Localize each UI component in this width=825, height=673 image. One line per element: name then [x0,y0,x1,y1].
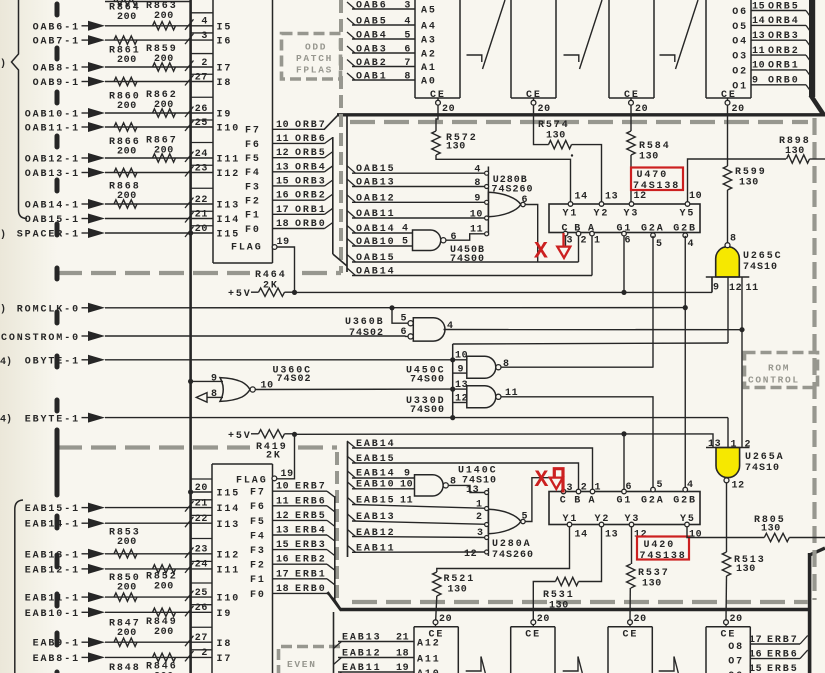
svg-text:13: 13 [605,192,618,203]
svg-text:G1: G1 [617,224,633,235]
svg-text:): ) [0,229,6,241]
decoder U470 74S138 body [549,204,700,233]
svg-text:A2: A2 [421,50,437,61]
svg-text:F3: F3 [245,182,261,193]
bundle tick EAB8-1 [185,651,194,662]
svg-text:B: B [574,224,582,235]
svg-text:74S260: 74S260 [492,550,534,561]
bevel corner top right [811,95,824,115]
nor gate U280A 74S260 [487,488,489,556]
bundle trunk vertical line upper [346,115,348,272]
svg-text:ORB7: ORB7 [295,120,327,131]
svg-text:O2: O2 [732,66,748,77]
svg-text:15: 15 [276,540,289,551]
signal OAB12 bundle [347,195,356,203]
wire jog to U360B pin6 [406,335,408,337]
svg-text:130: 130 [736,564,756,575]
wire U450C out to U470 G2A [502,366,654,368]
svg-text:8: 8 [404,72,411,83]
svg-text:A11: A11 [417,655,441,666]
heavy divider line top [337,113,825,116]
svg-text:3: 3 [567,236,574,247]
svg-text:200: 200 [117,582,137,593]
U420 pin Y5 [685,522,690,527]
svg-text:20: 20 [537,614,550,625]
resistor R537 130 [627,564,635,588]
svg-text:ODD: ODD [305,42,327,53]
svg-text:ERB4: ERB4 [295,526,327,537]
svg-text:200: 200 [117,55,137,66]
bundle tick OAB9-1 [185,75,194,86]
svg-text:C: C [560,496,568,507]
svg-text:I13: I13 [217,201,241,212]
bundle trunk vertical line lower [347,442,349,558]
bundle tick EAB13-1 [185,547,194,558]
junction G1 U470 on +5V net [621,290,626,295]
svg-text:O7: O7 [728,657,744,668]
U420 pin Y1 [567,522,572,527]
signal OAB1 to pin 8 A0 [347,73,355,80]
svg-text:I10: I10 [217,594,241,605]
junction U420 G1 on R419 net [621,431,626,436]
svg-text:6: 6 [625,236,632,247]
wire Y5 to R898 [688,159,787,204]
svg-text:ERB1: ERB1 [295,569,327,580]
wire OAB15 to U470 B [352,261,579,263]
svg-text:ROM: ROM [768,363,790,374]
pin 22 I13 even chip [191,522,212,524]
svg-text:C: C [562,224,570,235]
rom control dashed box [745,353,818,388]
pin 20 I15 even chip [191,491,212,493]
svg-text:R537: R537 [638,568,670,579]
svg-text:13: 13 [276,162,289,173]
signal EAB15 bundle to U420 B [347,456,356,463]
wire U470 G2A to U450C out [652,236,654,367]
svg-text:PATCH: PATCH [296,53,333,64]
svg-text:19: 19 [396,663,409,673]
svg-text:20: 20 [635,104,648,115]
svg-text:EAB14-1: EAB14-1 [25,520,80,531]
svg-text:130: 130 [448,585,468,596]
ebyte trunk vertical [452,344,454,418]
svg-text:17: 17 [276,569,289,580]
svg-text:8: 8 [503,359,510,370]
svg-text:OAB11-1: OAB11-1 [25,124,80,135]
svg-text:ORB3: ORB3 [295,176,327,187]
svg-text:ORB4: ORB4 [768,16,800,27]
wire U420 G1 vertical [623,434,625,489]
svg-text:5: 5 [401,314,408,325]
svg-text:U360B: U360B [345,317,385,328]
signal OAB14 bundle [347,226,356,234]
signal OAB15 bundle [347,166,356,174]
svg-text:+5V: +5V [228,289,252,300]
svg-text:CONSTROM-0: CONSTROM-0 [1,333,80,344]
svg-text:I10: I10 [217,124,241,135]
svg-text:20: 20 [442,104,455,115]
svg-text:ERB0: ERB0 [295,584,327,595]
svg-text:I5: I5 [217,22,233,33]
wire R584 to Y3 U470 [630,155,632,204]
svg-text:F5: F5 [245,154,261,165]
svg-text:130: 130 [546,131,566,142]
signal bus vertical line [189,0,192,673]
svg-text:4): 4) [0,414,12,426]
svg-text:I11: I11 [217,155,241,166]
svg-text:16: 16 [749,649,762,660]
resistor R898 130 [787,155,810,163]
svg-text:F4: F4 [250,531,266,542]
svg-text:ERB5: ERB5 [295,511,327,522]
U470 pin G2A [652,232,654,235]
pin 25 I10 [191,126,213,128]
svg-text:ERB2: ERB2 [295,555,327,566]
pin 21 I14 even chip [191,507,212,509]
wire trunk to U265C pin12 [453,343,728,344]
svg-text:ORB0: ORB0 [295,219,327,230]
svg-text:200: 200 [117,12,137,23]
U265A input stubs and labels [727,418,729,448]
svg-text:EAB10-1: EAB10-1 [25,609,80,620]
bus bar lower-right vertical [808,553,812,673]
svg-text:OBYTE-1: OBYTE-1 [25,357,80,368]
svg-text:OAB12-1: OAB12-1 [25,155,80,166]
U420 pin G2A [651,487,656,492]
wire R572 to Y1 U470 [436,155,571,204]
svg-text:O1: O1 [732,81,748,92]
U420 pin G1 [622,489,627,494]
wire flag to r464 net [277,247,295,292]
svg-text:21: 21 [396,633,409,644]
svg-text:R599: R599 [735,167,767,178]
U420 label red box [637,537,689,560]
svg-text:21: 21 [195,498,208,509]
svg-text:ERB6: ERB6 [295,496,327,507]
svg-text:24: 24 [195,560,208,571]
svg-text:Y2: Y2 [594,209,610,220]
svg-text:25: 25 [195,588,208,599]
svg-text:18: 18 [276,584,289,595]
even patch dashed box [281,645,345,649]
wire U140C out to U280A pin13 [449,485,487,492]
svg-text:9: 9 [713,283,720,294]
svg-text:CONTROL: CONTROL [748,375,800,386]
pin 25 I10 even chip [191,596,212,598]
svg-text:74S02: 74S02 [277,374,312,385]
svg-text:74S10: 74S10 [743,262,778,273]
svg-text:17: 17 [749,635,762,646]
svg-text:27: 27 [195,633,208,644]
wire U470 A to OAB14 [591,236,593,276]
svg-text:18: 18 [396,649,409,660]
svg-text:10: 10 [276,482,289,493]
svg-text:B: B [574,496,582,507]
svg-text:A: A [589,496,597,507]
wire chip3 CE to R584 [630,105,632,131]
svg-text:Y2: Y2 [595,514,611,525]
svg-text:74S138: 74S138 [633,181,680,192]
svg-text:14: 14 [575,530,588,541]
svg-text:EAB8-1: EAB8-1 [33,654,80,665]
svg-text:OAB7-1: OAB7-1 [33,37,80,48]
pin 26 I9 [191,112,213,114]
svg-text:2: 2 [581,483,588,494]
svg-text:G1: G1 [617,496,633,507]
svg-text:15: 15 [752,1,765,12]
wire G2B common vertical [684,236,686,489]
U470 pin G2B [684,232,686,235]
svg-text:1: 1 [595,483,602,494]
svg-text:13: 13 [455,380,468,391]
red arrow markup at U470 pin C [562,233,564,247]
break mark top 3 [676,0,699,69]
heavy divider line bottom [340,608,809,611]
svg-text:200: 200 [117,191,137,202]
svg-text:U280A: U280A [492,539,532,550]
svg-text:10: 10 [276,120,289,131]
wire R419 net to U265A pin13 [295,434,714,448]
svg-text:Y5: Y5 [680,209,696,220]
eab bottom bundle vertical [333,612,335,673]
svg-text:ORB5: ORB5 [768,1,800,12]
svg-text:ORB2: ORB2 [768,46,800,57]
svg-text:4: 4 [402,224,409,235]
svg-text:20: 20 [195,224,208,235]
junction U360B pin5 tap [389,305,394,310]
svg-text:13: 13 [752,31,765,42]
svg-text:OAB9-1: OAB9-1 [33,78,80,89]
wire R531 to chip CE [533,582,555,620]
U470 label red box [631,168,683,191]
wire U470 G1 to +5V net [623,236,625,293]
svg-text:EAB13: EAB13 [342,633,382,644]
U470 pin A [590,231,595,236]
red hook arrow markup at U420 pin C [554,469,563,493]
svg-text:200: 200 [117,101,137,112]
svg-text:OAB14-1: OAB14-1 [25,201,80,212]
junction bus pin20 even [188,489,193,494]
svg-text:9: 9 [211,374,218,385]
svg-text:130: 130 [785,146,805,157]
rom chip bottom 2 body [510,627,512,673]
svg-text:1: 1 [594,236,601,247]
resistor R599 130 [723,166,731,190]
svg-text:27: 27 [195,72,208,83]
wire OAB14 to U470 A [352,275,592,277]
resistor R584 130 [627,131,635,155]
junction r464 net [292,290,297,295]
svg-text:20: 20 [634,614,647,625]
svg-text:U420: U420 [644,540,676,551]
svg-text:A3: A3 [421,36,437,47]
svg-text:2: 2 [201,648,208,659]
svg-text:74S138: 74S138 [640,551,687,562]
svg-text:200: 200 [154,582,174,593]
even patch boundary horizontal dashed [57,445,250,449]
wire flag to R419 net [277,434,295,479]
svg-text:F0: F0 [250,590,266,601]
signal OAB5 to pin 4 A4 [347,18,355,25]
svg-text:26: 26 [195,104,208,115]
svg-text:I7: I7 [217,654,233,665]
svg-text:6: 6 [626,482,633,493]
svg-text:I7: I7 [217,64,233,75]
svg-text:SPACER-1: SPACER-1 [17,230,80,241]
svg-text:I14: I14 [217,215,241,226]
wire OAB14 to U450B pin4 [352,232,413,234]
svg-text:20: 20 [439,614,452,625]
svg-text:7: 7 [404,58,411,69]
U420 pin B [576,489,581,494]
svg-text:A0: A0 [421,77,437,88]
svg-text:ORB1: ORB1 [295,205,327,216]
svg-text:130: 130 [739,178,759,189]
svg-text:R521: R521 [444,574,476,585]
svg-text:OAB10-1: OAB10-1 [25,110,80,121]
signal OAB2 to pin 7 A1 [347,60,355,67]
patch boundary dashed line below top divider [350,120,808,124]
signal EAB13 to U280A pin2 [348,514,356,521]
svg-text:EAB15-1: EAB15-1 [25,504,80,515]
svg-text:26: 26 [195,603,208,614]
signal EAB12 to U280A pin3 [348,530,356,537]
svg-text:F4: F4 [245,168,261,179]
wire Y2 U420 to R531 [579,527,602,582]
wire tap to U450C pin9 [453,372,467,374]
wire R537 to chip CE [629,588,631,620]
svg-text:U265C: U265C [743,251,783,262]
svg-text:10: 10 [689,530,702,541]
signal EAB13 pin 21 A12 [334,642,342,649]
svg-text:G2A: G2A [641,496,665,507]
svg-text:F7: F7 [245,126,261,137]
svg-text:EAB12-1: EAB12-1 [25,565,80,576]
wire U360B out [444,329,743,331]
svg-text:200: 200 [117,537,137,548]
svg-text:ORB6: ORB6 [295,134,327,145]
junction spacer bus [188,230,193,235]
bevel corner bottom right [809,548,825,556]
wire U360C pin8 open arrow [207,396,223,398]
nor gate U360C 74S02 [220,378,250,402]
wire U265A out to R513 [726,483,728,552]
svg-text:FLAG: FLAG [231,243,263,254]
svg-text:74S00: 74S00 [450,254,485,265]
right boundary vertical dashed [812,118,816,600]
pin 20 I15 [191,232,213,234]
svg-text:11: 11 [276,134,289,145]
svg-text:6: 6 [451,232,458,243]
svg-text:G2B: G2B [673,224,697,235]
svg-text:ROMCLK-0: ROMCLK-0 [17,305,80,316]
pin 21 I14 [191,218,213,220]
wire OAB13 to U280B pin8 [352,186,485,188]
svg-text:9: 9 [752,76,759,87]
svg-text:2: 2 [476,512,483,523]
svg-text:EBYTE-1: EBYTE-1 [25,415,80,426]
svg-text:6: 6 [404,45,411,56]
svg-text:130: 130 [642,579,662,590]
svg-text:A10: A10 [417,669,441,673]
svg-text:11: 11 [400,496,413,507]
svg-text:F1: F1 [245,211,261,222]
wire R599 to U265C pin8 [727,190,729,243]
svg-text:OAB8-1: OAB8-1 [33,64,80,75]
wire +5V pullup net to U265C pin9 [295,291,713,293]
bundle tick EAB12-1 [185,562,194,573]
svg-text:ORB2: ORB2 [295,191,327,202]
bundle tick OAB7-1 [185,34,194,45]
svg-text:8: 8 [211,389,218,400]
svg-text:Y3: Y3 [625,514,641,525]
svg-text:F7: F7 [250,488,266,499]
svg-text:11: 11 [276,496,289,507]
svg-text:G2A: G2A [641,224,665,235]
patch boundary dashed line above bottom divider [352,600,808,604]
signal OAB13 bundle [347,179,356,187]
svg-text:23: 23 [195,163,208,174]
svg-text:R584: R584 [639,141,671,152]
svg-text:4: 4 [687,480,694,491]
signal EAB10 10 to U140C [348,482,356,489]
svg-text:200: 200 [154,11,174,22]
pin 24 I11 even chip [191,568,212,570]
svg-text:I11: I11 [217,566,241,577]
svg-text:O3: O3 [732,52,748,63]
svg-text:OAB13-1: OAB13-1 [25,169,80,180]
svg-text:I6: I6 [217,37,233,48]
svg-text:OAB2: OAB2 [356,58,388,69]
even patch boundary vertical dashed [335,452,339,600]
wire U450B out to U280B pin11 [446,234,485,240]
pin 24 I11 [191,157,213,159]
bus bar upper-right vertical [809,0,815,97]
svg-text:20: 20 [538,104,551,115]
svg-text:9: 9 [474,194,481,205]
svg-text:25: 25 [195,118,208,129]
svg-text:F6: F6 [245,140,261,151]
nand gate U450C 74S00 [467,356,496,378]
bundle tick EAB15-1 [185,501,194,512]
svg-text:16: 16 [276,555,289,566]
svg-text:74S00: 74S00 [410,405,445,416]
wire R521 to chip CE [436,596,437,620]
svg-text:EAB9-1: EAB9-1 [33,639,80,650]
bundle tick EAB11-1 [185,591,194,602]
U470 pin B [576,231,581,236]
svg-text:8: 8 [730,234,737,245]
resistor R513 130 [722,552,730,576]
svg-text:EAB13-1: EAB13-1 [25,550,80,561]
svg-text:2K: 2K [266,451,282,462]
pin 2 I7 [191,66,213,68]
svg-text:CE: CE [525,630,541,641]
svg-text:U470: U470 [637,170,669,181]
rom chip top 1 body [414,0,416,98]
wire tap to U360B pin5 [392,308,408,323]
svg-text:I14: I14 [217,504,241,515]
bundle tick SPACER-1 [185,227,194,238]
bundle diagonal ORB7 to divider [324,114,339,129]
svg-text:74S02: 74S02 [349,328,384,339]
svg-text:I8: I8 [217,639,233,650]
svg-text:F1: F1 [250,575,266,586]
svg-text:5: 5 [404,31,411,42]
svg-text:5: 5 [656,239,663,250]
svg-text:15: 15 [276,176,289,187]
svg-text:EAB11-1: EAB11-1 [25,594,80,605]
